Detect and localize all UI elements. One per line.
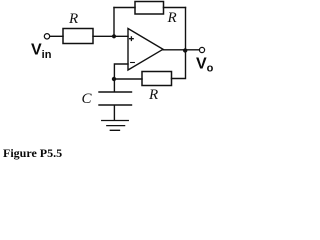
- resistor R2: [135, 2, 164, 15]
- wire node B down to capacitor: [113, 79, 115, 92]
- op-amp plus sign: [130, 37, 134, 41]
- wire R2 to right vertical: [164, 7, 186, 9]
- node A: [112, 34, 116, 38]
- op-amp minus sign: [131, 62, 135, 64]
- terminal Vin: [44, 34, 49, 39]
- svg-text:Vin: Vin: [31, 42, 52, 62]
- resistor R1: [63, 29, 93, 44]
- op-amp U1: [128, 29, 163, 71]
- wire Vin to R1: [50, 35, 63, 37]
- output node: [183, 48, 187, 52]
- svg-text:Vo: Vo: [196, 56, 214, 75]
- capacitor C bottom plate: [99, 104, 132, 106]
- wire top left to R2: [114, 7, 135, 9]
- terminal Vo: [199, 47, 204, 52]
- wire right vertical down to output node: [185, 8, 187, 51]
- svg-text:Figure P5.5: Figure P5.5: [3, 146, 62, 160]
- resistor R3: [142, 72, 172, 86]
- wire node B to R3: [114, 78, 142, 80]
- wire node A up: [113, 8, 115, 37]
- wire capacitor to ground: [113, 106, 115, 121]
- wire R1 to node A / op-amp + input: [93, 35, 128, 37]
- svg-text:C: C: [82, 91, 93, 107]
- svg-text:R: R: [68, 11, 78, 27]
- svg-text:R: R: [148, 87, 158, 103]
- wire minus input to node B: [114, 64, 128, 79]
- node B: [112, 77, 116, 81]
- svg-text:R: R: [167, 10, 177, 26]
- wire R3 to right vertical: [172, 51, 186, 79]
- ground: [102, 121, 129, 131]
- capacitor C top plate: [99, 91, 132, 93]
- wire op-amp output to terminal Vo: [163, 49, 199, 51]
